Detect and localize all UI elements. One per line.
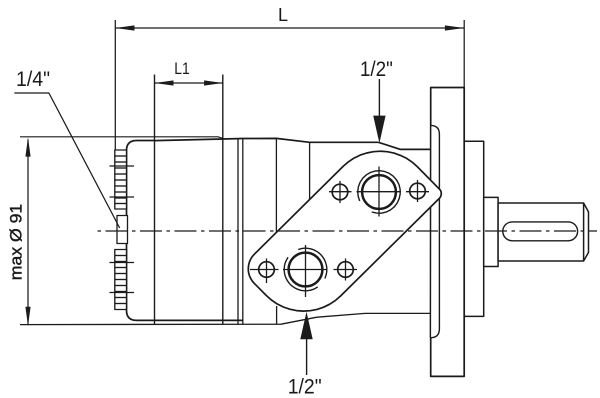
wire: max-diameter section top edge + dim extension line <box>20 137 223 139</box>
section line (L1 left) <box>154 75 156 325</box>
cooling fins upper block <box>115 150 127 209</box>
upper port vertical tick <box>378 167 380 217</box>
section line upper mid <box>275 138 277 233</box>
shaft chamfer line <box>583 203 585 261</box>
leader line for 1/4 inch port <box>14 93 119 228</box>
end cap outline (left, with fillets) <box>127 141 155 321</box>
bolt hole upper-right <box>410 183 426 199</box>
dimension L1: line and arrows <box>155 82 223 84</box>
output shaft <box>498 203 588 261</box>
centerline (dash-dot) <box>98 230 598 232</box>
wire: max-diameter section bottom edge + dim extension + port housing bottom <box>20 313 431 324</box>
lower port outer thread arc a <box>284 257 318 291</box>
cooling fins lower block <box>115 250 127 310</box>
joint line 1 <box>237 139 239 325</box>
arrow bottom 1/2 inch port <box>306 336 308 375</box>
mounting flange plate <box>431 88 465 377</box>
bolt hole lower-right <box>338 262 354 278</box>
wire: rear taper top edge behind port flange <box>378 142 430 149</box>
fin tick 3 <box>110 262 135 264</box>
svg-text:L: L <box>278 5 288 25</box>
lower port inner circle <box>289 253 323 287</box>
fin tick 1 <box>110 165 135 167</box>
lower port outer thread arc b <box>298 248 327 278</box>
section line lower mid <box>276 306 278 324</box>
lower row center line chain <box>250 269 357 271</box>
section line (L1 right) <box>222 75 224 325</box>
upper row center line chain <box>329 191 429 193</box>
port flange (rotated rounded rectangle) <box>248 151 441 311</box>
bolt hole upper-left <box>332 184 348 200</box>
svg-text:1/2": 1/2" <box>360 58 393 81</box>
dimension L: line and arrows <box>115 20 464 150</box>
svg-text:1/4": 1/4" <box>16 68 50 91</box>
flange pilot boss <box>430 125 439 337</box>
fin tick 2 <box>110 196 135 198</box>
1/4 inch drain port boss <box>117 216 128 244</box>
dimension max diameter 91: vertical line and arrows <box>27 140 29 325</box>
wire: housing inner bottom edge <box>155 319 243 321</box>
svg-text:1/2": 1/2" <box>288 376 322 398</box>
lower port vertical tick <box>305 245 307 297</box>
rear housing (behind mounting flange) <box>464 141 484 316</box>
upper port outer thread arc <box>358 171 401 214</box>
upper port inner circle <box>362 175 396 209</box>
bolt hole lower-left <box>259 262 275 278</box>
svg-text:L1: L1 <box>174 59 190 78</box>
fin tick 4 <box>110 292 135 294</box>
keyway slot <box>503 222 578 241</box>
arrow top 1/2 inch port <box>378 79 380 119</box>
wire: housing inner top edge <box>155 138 379 142</box>
joint line 2 <box>242 139 244 325</box>
shaft collar <box>484 197 498 266</box>
section line right of slope <box>309 142 311 199</box>
svg-text:max Ø 91: max Ø 91 <box>8 204 26 281</box>
